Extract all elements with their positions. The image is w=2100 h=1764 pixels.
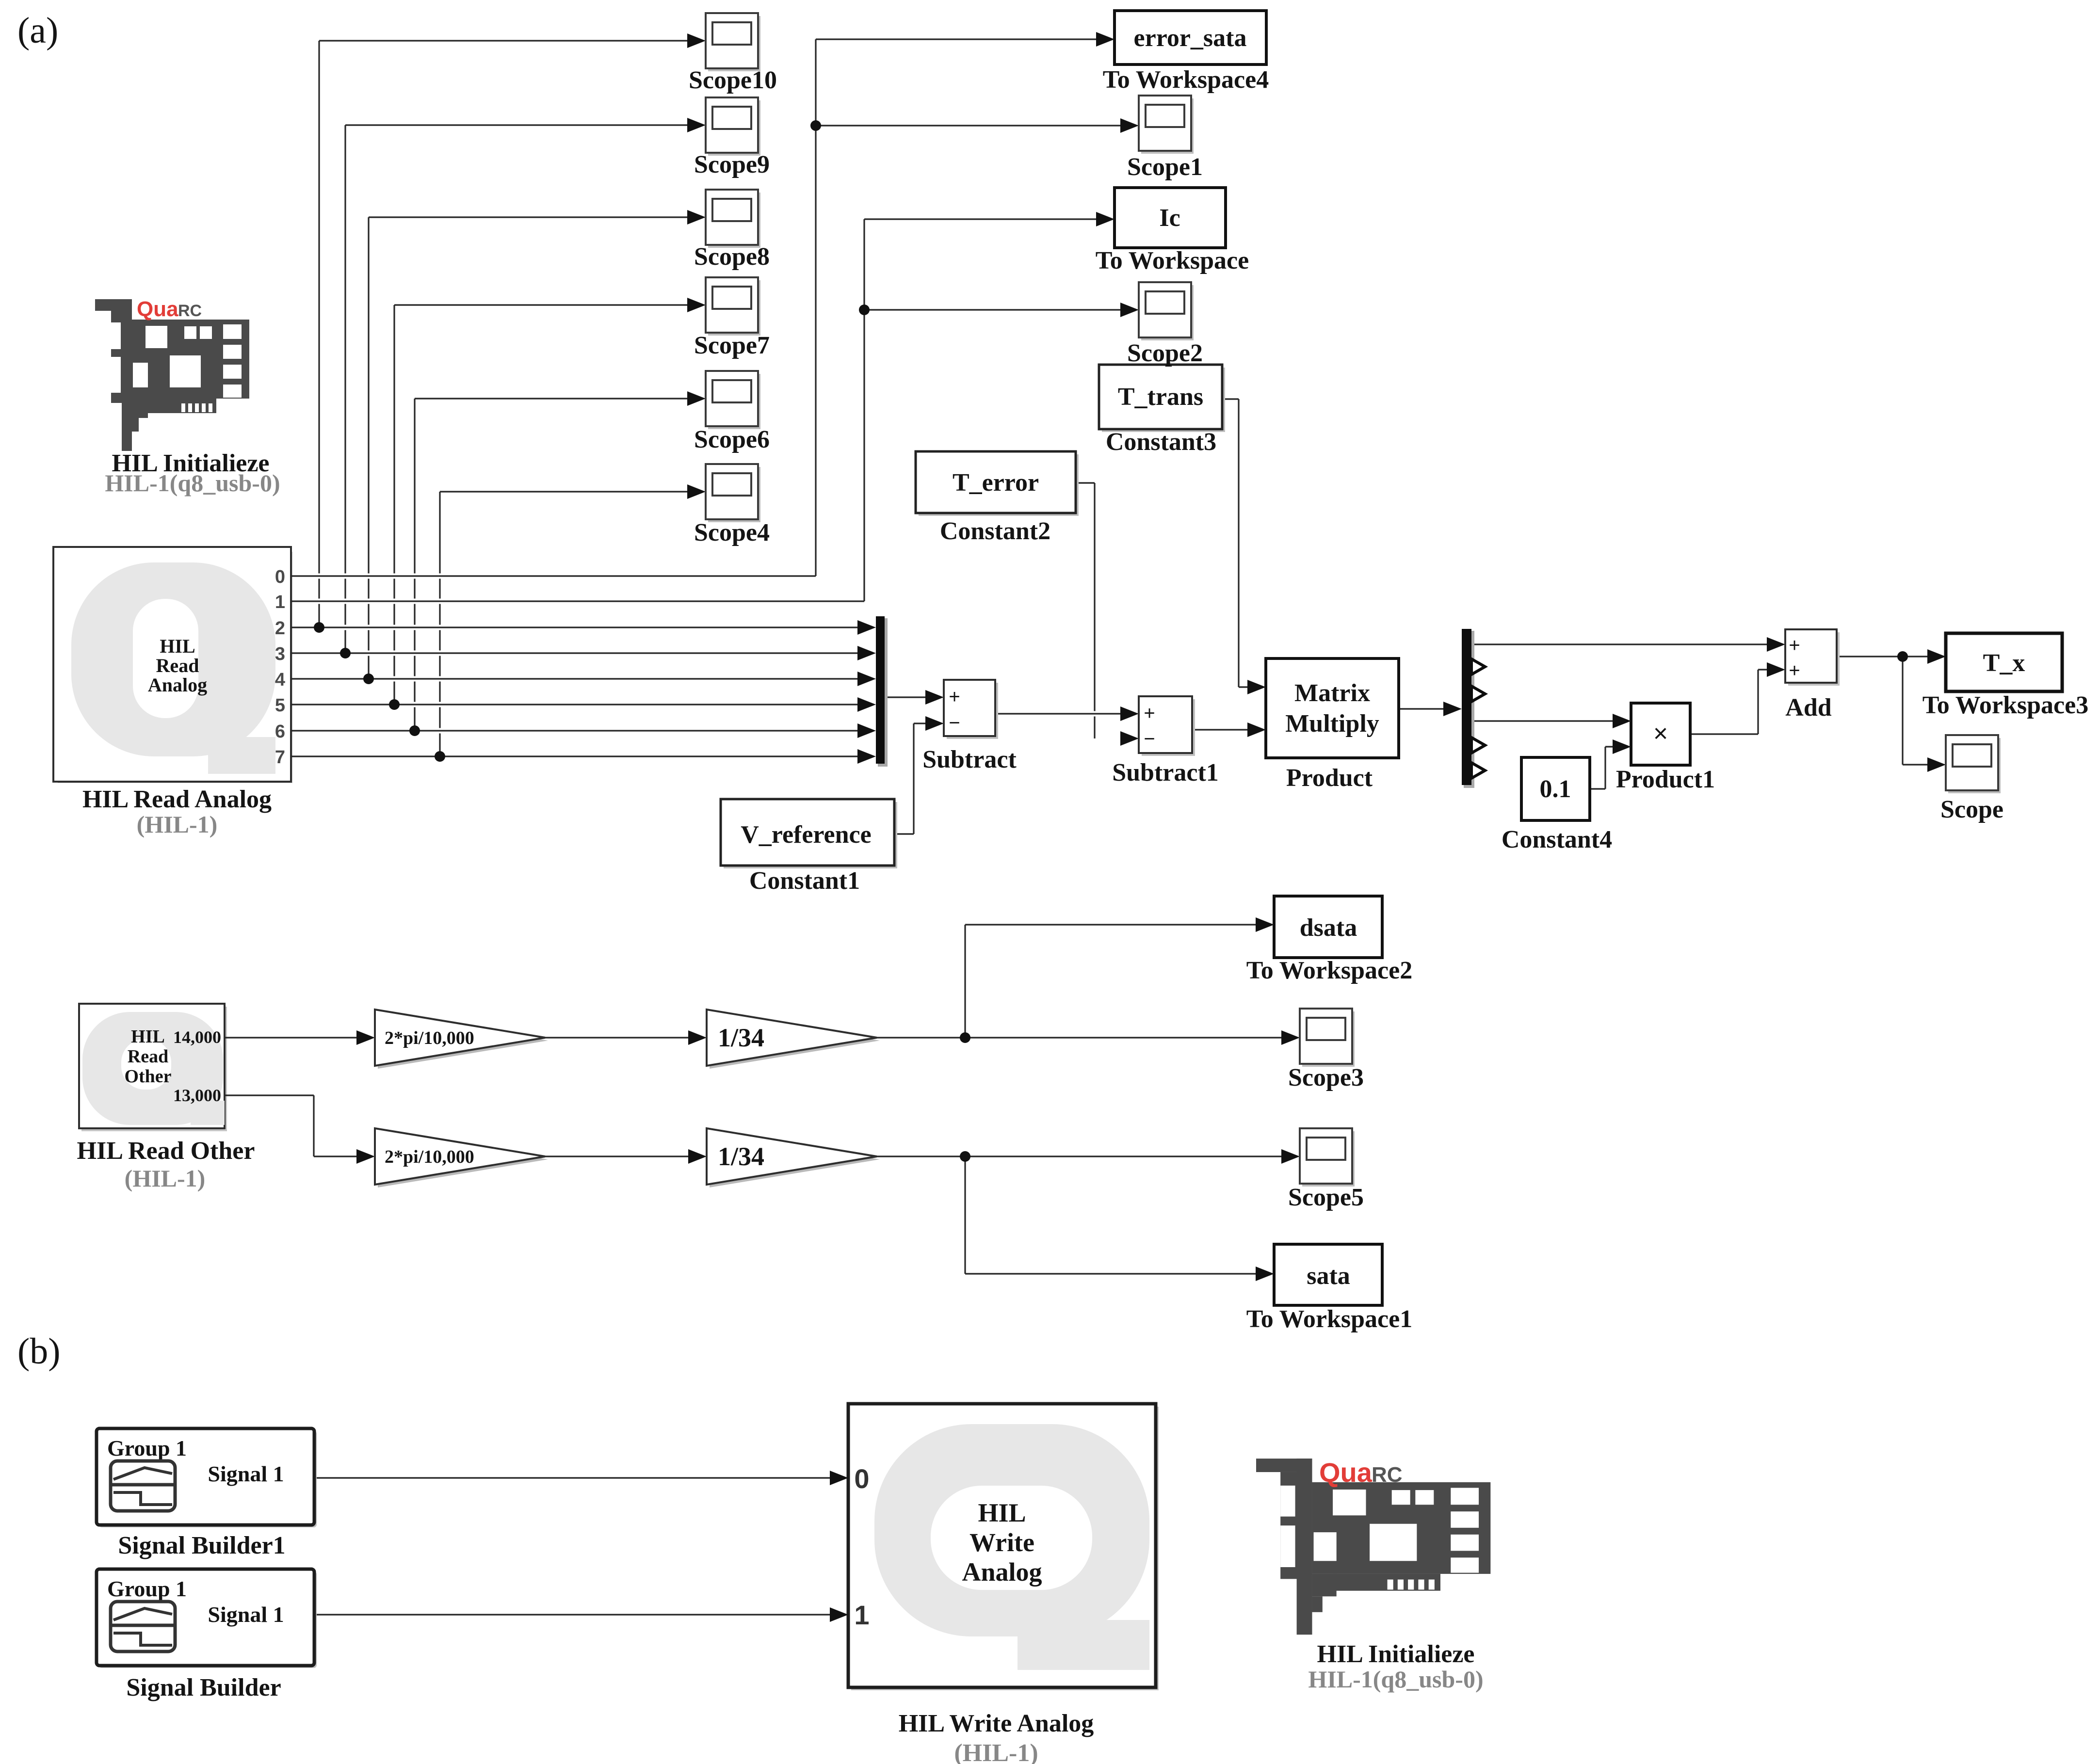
svg-text:Add: Add xyxy=(1785,694,1831,722)
svg-text:Constant3: Constant3 xyxy=(1106,428,1216,456)
svg-text:+: + xyxy=(949,686,960,707)
svg-text:Analog: Analog xyxy=(148,674,207,696)
svg-text:Scope2: Scope2 xyxy=(1127,339,1203,367)
svg-text:Read: Read xyxy=(128,1046,168,1067)
svg-text:Scope8: Scope8 xyxy=(694,243,770,271)
svg-text:HIL Initialieze: HIL Initialieze xyxy=(1317,1640,1475,1668)
svg-text:0: 0 xyxy=(275,567,285,587)
svg-text:Other: Other xyxy=(124,1066,171,1087)
svg-text:Signal Builder1: Signal Builder1 xyxy=(118,1532,285,1559)
svg-text:Scope9: Scope9 xyxy=(694,151,770,178)
svg-text:−: − xyxy=(1144,728,1155,750)
svg-text:1: 1 xyxy=(275,592,285,612)
svg-text:2*pi/10,000: 2*pi/10,000 xyxy=(385,1028,474,1048)
svg-text:Scope6: Scope6 xyxy=(694,426,770,453)
svg-text:+: + xyxy=(1789,660,1800,681)
svg-text:1/34: 1/34 xyxy=(718,1142,764,1171)
svg-text:Subtract1: Subtract1 xyxy=(1112,759,1219,786)
svg-text:Scope: Scope xyxy=(1940,796,2003,823)
svg-text:Constant2: Constant2 xyxy=(940,517,1050,545)
svg-text:HIL-1(q8_usb-0): HIL-1(q8_usb-0) xyxy=(1308,1666,1483,1693)
svg-text:3: 3 xyxy=(275,644,285,664)
svg-text:7: 7 xyxy=(275,747,285,768)
svg-text:HIL: HIL xyxy=(160,635,195,657)
svg-text:error_sata: error_sata xyxy=(1134,24,1247,52)
svg-text:T_trans: T_trans xyxy=(1118,383,1203,411)
svg-text:Subtract: Subtract xyxy=(922,746,1017,773)
svg-text:Scope5: Scope5 xyxy=(1288,1184,1364,1211)
svg-text:Read: Read xyxy=(156,655,199,676)
svg-text:(HIL-1): (HIL-1) xyxy=(954,1739,1038,1764)
svg-text:Scope1: Scope1 xyxy=(1127,153,1203,181)
svg-text:Scope4: Scope4 xyxy=(694,519,770,546)
svg-text:13,000: 13,000 xyxy=(173,1086,221,1105)
svg-text:Signal Builder: Signal Builder xyxy=(126,1674,281,1701)
svg-text:To Workspace3: To Workspace3 xyxy=(1922,691,2088,719)
svg-text:Group 1: Group 1 xyxy=(107,1576,187,1601)
svg-text:14,000: 14,000 xyxy=(173,1027,221,1047)
svg-text:V_reference: V_reference xyxy=(741,821,871,849)
svg-text:6: 6 xyxy=(275,722,285,742)
svg-text:1/34: 1/34 xyxy=(718,1023,764,1052)
svg-text:×: × xyxy=(1653,720,1668,748)
svg-text:HIL Write Analog: HIL Write Analog xyxy=(899,1710,1094,1737)
svg-text:2: 2 xyxy=(275,618,285,639)
svg-text:(HIL-1): (HIL-1) xyxy=(125,1165,206,1192)
svg-text:Qua: Qua xyxy=(137,297,178,321)
svg-text:1: 1 xyxy=(854,1600,869,1630)
svg-text:Product: Product xyxy=(1286,764,1373,792)
svg-text:5: 5 xyxy=(275,695,285,716)
svg-text:(a): (a) xyxy=(17,10,58,51)
svg-text:+: + xyxy=(1789,635,1800,656)
svg-text:Constant4: Constant4 xyxy=(1502,826,1612,853)
svg-text:dsata: dsata xyxy=(1300,914,1357,942)
svg-text:HIL Read Analog: HIL Read Analog xyxy=(82,786,272,813)
svg-text:Scope10: Scope10 xyxy=(689,66,777,94)
svg-text:HIL-1(q8_usb-0): HIL-1(q8_usb-0) xyxy=(105,469,280,497)
svg-text:Matrix: Matrix xyxy=(1294,679,1370,707)
svg-text:sata: sata xyxy=(1307,1262,1350,1290)
svg-text:Write: Write xyxy=(969,1528,1034,1557)
svg-text:Scope7: Scope7 xyxy=(694,332,770,359)
svg-text:Qua: Qua xyxy=(1319,1457,1373,1488)
svg-text:To Workspace1: To Workspace1 xyxy=(1246,1305,1412,1333)
svg-text:To Workspace: To Workspace xyxy=(1096,247,1249,274)
svg-text:0: 0 xyxy=(854,1463,869,1494)
svg-text:Analog: Analog xyxy=(962,1557,1042,1587)
svg-text:RC: RC xyxy=(1372,1463,1403,1487)
svg-text:RC: RC xyxy=(178,302,202,320)
svg-text:Constant1: Constant1 xyxy=(749,867,860,895)
svg-text:T_x: T_x xyxy=(1983,649,2025,677)
svg-text:T_error: T_error xyxy=(953,469,1039,497)
svg-text:(b): (b) xyxy=(17,1331,61,1372)
svg-text:−: − xyxy=(949,712,960,734)
svg-text:0.1: 0.1 xyxy=(1540,775,1571,803)
svg-text:Scope3: Scope3 xyxy=(1288,1064,1364,1091)
svg-text:2*pi/10,000: 2*pi/10,000 xyxy=(385,1147,474,1167)
svg-text:4: 4 xyxy=(275,670,285,690)
svg-text:To Workspace2: To Workspace2 xyxy=(1246,957,1412,984)
svg-text:+: + xyxy=(1144,703,1155,724)
svg-text:Signal 1: Signal 1 xyxy=(208,1602,284,1627)
svg-text:(HIL-1): (HIL-1) xyxy=(137,811,218,838)
svg-text:HIL Read Other: HIL Read Other xyxy=(77,1137,255,1165)
svg-text:Product1: Product1 xyxy=(1616,766,1715,793)
svg-text:Multiply: Multiply xyxy=(1285,710,1379,738)
svg-text:Ic: Ic xyxy=(1159,204,1180,232)
svg-text:To Workspace4: To Workspace4 xyxy=(1103,66,1269,94)
svg-text:Group 1: Group 1 xyxy=(107,1436,187,1460)
svg-text:HIL: HIL xyxy=(978,1498,1026,1527)
svg-text:Signal 1: Signal 1 xyxy=(208,1461,284,1486)
svg-text:HIL: HIL xyxy=(131,1026,165,1047)
